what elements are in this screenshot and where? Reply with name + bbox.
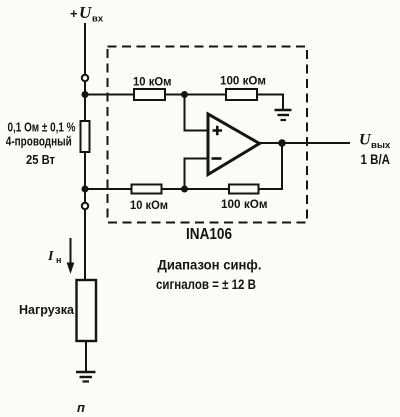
svg-text:+: + (70, 6, 78, 21)
ground (below load) (76, 372, 96, 382)
junction dot top inner node (181, 91, 188, 98)
wire top node to op-amp + input (185, 95, 208, 131)
svg-text:4-проводный: 4-проводный (6, 135, 72, 149)
svg-text:вых: вых (371, 140, 391, 151)
wire from +Uвх down to top terminal (84, 23, 86, 75)
wire from upper terminal to shunt resistor (84, 81, 86, 121)
op-amp U1 (INA106 amplifier) (208, 114, 260, 175)
wire R2 to ground (257, 95, 283, 110)
shunt value label 0,1 Ом ± 0,1 % / 4-проводный / 25 Вт (6, 121, 76, 168)
ground (top right, ref input) (275, 110, 292, 120)
resistor R2 100 кОм (top) (226, 89, 257, 100)
resistor R1 10 кОм (top) (134, 89, 165, 100)
svg-text:н: н (56, 255, 61, 265)
current arrow Iн (down) (67, 238, 75, 274)
svg-text:10 кОм: 10 кОм (133, 75, 172, 89)
svg-text:INA106: INA106 (186, 226, 232, 243)
wire top-left node to R1 (85, 94, 134, 96)
junction dot bottom inner node (181, 186, 188, 193)
junction dot at bottom-left node (82, 186, 89, 193)
wire R1 to top node (165, 94, 226, 96)
svg-text:п: п (77, 400, 85, 415)
svg-text:10 кОм: 10 кОм (130, 198, 168, 212)
node +Uвх label (70, 3, 104, 25)
svg-text:I: I (47, 249, 54, 264)
current label Iн (47, 249, 61, 265)
svg-text:вх: вх (92, 14, 104, 25)
dashed box INA106 (108, 47, 308, 223)
svg-text:U: U (79, 3, 92, 22)
junction dot output node (278, 139, 286, 147)
wire bottom node to op-amp - input (185, 159, 208, 190)
wire feedback from output down to R4 (259, 143, 283, 189)
terminal (open circle) upper (82, 75, 88, 81)
note label Диапазон синф. сигналов = ± 12 В (156, 257, 262, 293)
svg-text:Нагрузка: Нагрузка (19, 302, 75, 317)
node Uвых label (359, 132, 391, 168)
svg-text:Диапазон синф.: Диапазон синф. (158, 257, 262, 273)
resistor R3 10 кОм (bottom) (132, 185, 162, 194)
junction dot at top-left node (82, 91, 89, 98)
wire from shunt resistor to bottom terminal (84, 152, 86, 203)
svg-text:25 Вт: 25 Вт (26, 153, 55, 167)
svg-text:1 В/А: 1 В/А (361, 151, 391, 167)
resistor shunt 0,1 Ом (vertical) (81, 121, 90, 152)
wire from load to ground (85, 341, 87, 371)
load box Нагрузка (77, 280, 97, 341)
resistor R4 100 кОм (bottom, feedback) (229, 185, 259, 194)
svg-text:100 кОм: 100 кОм (220, 74, 266, 88)
svg-text:100 кОм: 100 кОм (221, 197, 268, 211)
wire from lower terminal to load (84, 209, 86, 280)
terminal (open circle) lower (82, 203, 88, 209)
wire R3 to bottom node (162, 188, 230, 190)
svg-text:сигналов = ± 12 В: сигналов = ± 12 В (156, 276, 256, 292)
svg-text:0,1 Ом ± 0,1 %: 0,1 Ом ± 0,1 % (8, 121, 76, 135)
wire op-amp output to Uвых (260, 142, 351, 144)
wire bottom-left node to R3 (85, 188, 132, 190)
